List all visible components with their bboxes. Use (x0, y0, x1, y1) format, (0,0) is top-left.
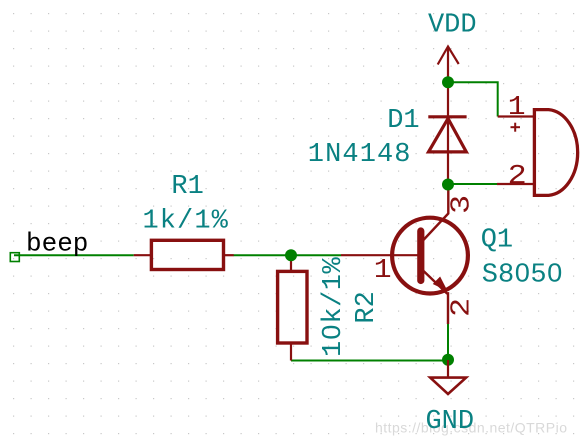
value 10k/1% zero dot patch (327, 329, 333, 335)
VDD symbol (438, 47, 459, 83)
buzzer pin 1 lead (498, 115, 535, 117)
wire R1 to Q1 base (234, 254, 342, 256)
buzzer plus sign (511, 123, 521, 132)
transistor Q1 collector (422, 184, 448, 242)
resistor R2 leads (290, 257, 292, 271)
junction R1-R2 (285, 249, 297, 261)
svg-text:1: 1 (508, 91, 526, 122)
svg-text:GND: GND (425, 407, 474, 437)
svg-text:beep: beep (26, 228, 88, 258)
transistor Q1 emitter (422, 270, 448, 325)
GND triangle (430, 378, 466, 394)
svg-text:2: 2 (508, 160, 527, 191)
svg-text:R2: R2 (352, 291, 382, 323)
svg-text:2: 2 (446, 298, 477, 317)
junction D1-buzzer (442, 179, 454, 191)
resistor R2 body (278, 271, 307, 343)
wire emitter to GND node (447, 324, 449, 361)
wire D1 cathode node to buzzer pin 2 (448, 183, 498, 185)
svg-text:D1: D1 (387, 106, 419, 136)
transistor Q1 base lead (341, 254, 418, 256)
buzzer pin 2 lead (497, 183, 534, 185)
diode D1 cathode bar (428, 115, 466, 118)
GND symbol stub (447, 360, 449, 378)
svg-text:1: 1 (374, 254, 392, 285)
hierarchical label square (beep) (10, 253, 19, 262)
svg-text:3: 3 (446, 195, 477, 214)
svg-text:R1: R1 (171, 172, 203, 202)
transistor Q1 base bar (417, 231, 424, 281)
svg-text:1N4148: 1N4148 (308, 140, 412, 170)
wire R2 bottom to GND node (291, 360, 448, 362)
diode D1 triangle (429, 119, 467, 152)
resistor R1 leads (134, 254, 152, 256)
svg-text:10k/1%: 10k/1% (319, 256, 349, 357)
junction GND (442, 354, 454, 366)
resistor R1 body (151, 240, 223, 269)
svg-text:1k/1%: 1k/1% (142, 207, 229, 237)
junction VDD (442, 76, 454, 88)
value S8050 zero dot patches (519, 268, 524, 277)
svg-text:VDD: VDD (428, 10, 477, 40)
transistor Q1 emitter arrow (434, 277, 447, 290)
svg-text:Q1: Q1 (481, 226, 513, 256)
wire VDD to buzzer pin 1 (448, 82, 498, 116)
transistor Q1 circle (392, 218, 468, 294)
diode D1 lead (447, 82, 449, 185)
wire beep to R1 (14, 254, 134, 256)
buzzer body (534, 110, 577, 196)
